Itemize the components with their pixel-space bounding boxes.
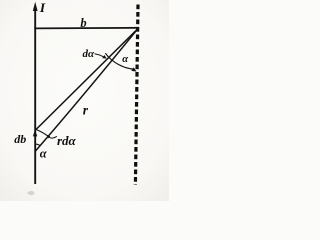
svg-text:r: r bbox=[83, 103, 89, 118]
svg-text:dα: dα bbox=[83, 48, 96, 60]
svg-text:db: db bbox=[14, 132, 26, 146]
svg-text:α: α bbox=[122, 54, 128, 65]
svg-text:I: I bbox=[39, 0, 46, 15]
svg-text:rdα: rdα bbox=[57, 133, 77, 148]
svg-text:b: b bbox=[80, 16, 86, 30]
svg-text:α: α bbox=[40, 147, 48, 161]
